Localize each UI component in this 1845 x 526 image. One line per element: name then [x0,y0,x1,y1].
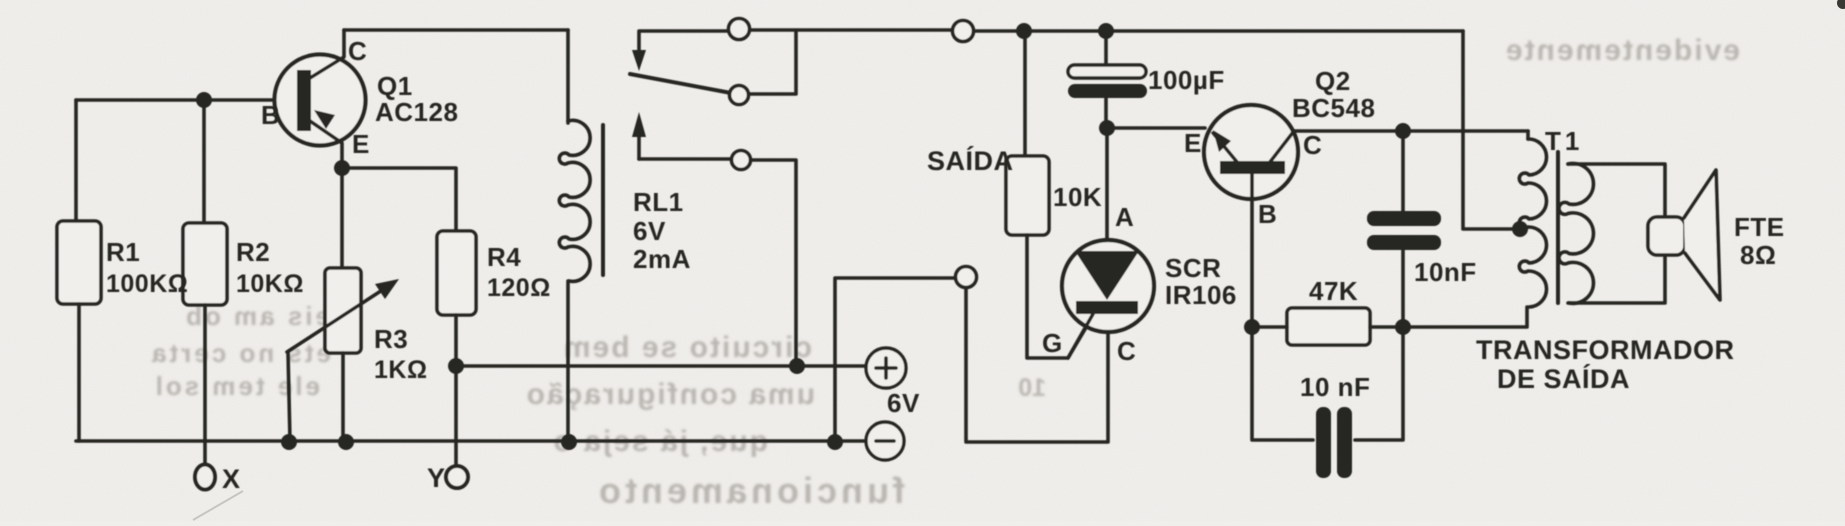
wire R4 bottom to terminal Y [454,315,458,464]
terminal Y [446,466,468,488]
resistor R4 [437,231,476,315]
svg-text:X: X [222,464,241,494]
node SCR anode / Q2 emitter [1099,120,1115,136]
terminal open circle top [953,21,974,42]
svg-text:10KΩ: 10KΩ [236,270,304,298]
wire top contact to rail [750,28,952,32]
resistor R1 [57,221,101,304]
transistor Q2 emitter arrow [1213,130,1231,152]
node Q2 base / 47K [1244,319,1260,335]
svg-text:funcionamento: funcionamento [595,470,905,511]
wire NC contact stub [639,157,731,161]
relay contact top [729,19,750,40]
wire base rail top-left (Q1 base feed) [76,98,276,102]
wire middle contact riser [749,31,796,94]
wire emitter down to R3 [340,168,344,268]
transistor Q1 collector lead [310,30,344,78]
svg-text:R2: R2 [236,237,270,267]
svg-text:SAÍDA: SAÍDA [927,145,1014,176]
battery B1 negative terminal [866,422,904,460]
svg-text:G: G [1042,328,1063,358]
svg-text:Q2: Q2 [1315,66,1351,96]
svg-text:SCR: SCR [1165,253,1221,283]
svg-text:R3: R3 [374,324,408,354]
relay actuation arrow up (from NC contact wire) [637,135,641,159]
svg-text:C: C [1303,130,1322,160]
svg-text:Y: Y [427,463,446,493]
relay actuation arrow down (from NO contact wire) [639,31,729,52]
wire R1 bottom to ground rail [77,304,81,441]
wire battery positive feed [456,364,865,368]
capacitor 100uF plate 1 [1068,65,1146,78]
svg-text:T1: T1 [1545,126,1583,156]
wire 100uF bottom lead [1104,98,1108,128]
node 47K right [1395,319,1411,335]
wire transformer primary bottom [1403,307,1527,327]
resistor 47K [1287,308,1370,345]
svg-text:A: A [1115,202,1134,232]
wire secondary bottom to speaker [1568,255,1665,303]
capacitor 10nF top plate 1 [1367,211,1441,226]
svg-text:E: E [1184,128,1202,158]
svg-text:47K: 47K [1309,276,1358,306]
svg-text:E: E [352,129,370,159]
svg-text:DE SAÍDA: DE SAÍDA [1497,363,1630,394]
wire SCR anode lead [1105,128,1109,240]
wire relay coil bottom to rail [566,281,570,441]
svg-text:ele tem sol: ele tem sol [153,371,320,401]
node R3 bottom [338,434,354,450]
wire 100uF top lead [1104,31,1108,66]
resistor 10K [1006,156,1049,235]
svg-text:10 nF: 10 nF [1300,372,1370,402]
transistor Q1 emitter lead [310,121,342,168]
node transformer tap [1512,221,1528,237]
wire top rail drop to relay coil [566,30,570,123]
svg-text:R4: R4 [487,242,521,272]
svg-text:BC548: BC548 [1292,93,1375,123]
wire R3 bottom to rail [341,353,345,441]
wire R2 bottom to terminal X [203,305,207,464]
node lower terminal rail [827,434,843,450]
svg-text:TRANSFORMADOR: TRANSFORMADOR [1476,335,1734,365]
wire 47K left [1252,325,1287,329]
transistor Q2 base bar [1220,161,1285,174]
scan scratch line [193,491,243,520]
wire 10nF (top) upper lead [1401,131,1405,211]
transistor Q2 base lead [1250,174,1254,326]
svg-text:IR106: IR106 [1165,280,1237,310]
svg-text:evidentemente: evidentemente [1504,34,1740,67]
relay contact middle [730,86,749,105]
transistor Q1 emitter arrow (PNP) [314,110,335,129]
capacitor 10nF bottom plate 1 [1316,407,1331,478]
relay core bar [601,125,605,275]
wire 10nF (top) lower lead [1401,250,1405,327]
svg-text:FTE: FTE [1734,212,1785,242]
wire emitter to R4 [342,168,456,231]
wire left vertical to R1 [74,100,78,221]
svg-text:100µF: 100µF [1148,65,1225,95]
wire primary top entry [1526,131,1530,139]
node collector/10nF [1395,123,1411,139]
svg-text:C: C [1117,336,1136,366]
svg-text:2mA: 2mA [633,244,691,274]
wire R2 top [202,100,206,223]
svg-text:R1: R1 [106,237,140,267]
svg-text:10nF: 10nF [1414,257,1477,287]
svg-text:6V: 6V [633,216,666,246]
svg-text:120Ω: 120Ω [487,274,551,302]
wire R3 wiper to rail [288,352,290,441]
SCR gate lead [1068,314,1093,358]
svg-text:6V: 6V [887,388,920,418]
resistor R2 [183,223,227,305]
svg-text:AC128: AC128 [375,97,458,127]
SCR body [1062,240,1154,332]
node emitter junction [334,160,350,176]
relay RL1 coil [559,120,590,281]
wire top rail right [974,29,1463,33]
transistor Q2 emitter lead [1213,133,1237,162]
node junction base/R2 [196,92,212,108]
wire bottom contact drop [751,160,796,366]
wire secondary top to speaker [1568,164,1665,217]
wire 10K bottom to SCR gate [1027,235,1094,358]
wire Q2 collector to transformer [1294,129,1528,133]
transistor Q1 body [275,55,366,146]
transistor Q2 collector lead [1270,131,1294,162]
relay contact bottom [732,151,751,170]
wire lower terminal to rail [835,278,955,441]
svg-text:8Ω: 8Ω [1740,240,1776,270]
node switch to battery wire [789,358,805,374]
relay switch blade [630,74,731,93]
capacitor 10nF top plate 2 [1367,235,1441,250]
transformer T1 core [1556,152,1560,303]
SCR anode triangle [1075,251,1139,300]
svg-text:1KΩ: 1KΩ [374,356,428,384]
wire 10nF bottom to 47K right [1355,327,1403,440]
transformer T1 primary coil [1519,139,1546,307]
svg-text:circuito se bem: circuito se bem [562,331,812,364]
battery B1 positive terminal [866,348,906,388]
node coil bottom [561,434,577,450]
speaker FTE horn [1684,170,1720,300]
wire Q2 base loop down [1252,327,1313,440]
transistor Q2 body [1204,105,1298,199]
capacitor 100uF plate 2 [1068,84,1147,98]
scan corner mark [1837,0,1845,9]
SCR cathode bar [1076,301,1138,314]
wire SCR cathode down [966,287,1108,442]
terminal open circle lower [956,267,977,288]
node wiper bottom [281,434,297,450]
capacitor 10nF bottom plate 2 [1337,407,1352,478]
wire top rail left [344,28,568,32]
wire 10K feed [1023,31,1027,156]
node 100uF top [1098,23,1114,39]
svg-text:10K: 10K [1053,182,1102,212]
svg-text:B: B [261,100,280,130]
node R4/battery wire [448,358,464,374]
svg-text:C: C [348,36,367,66]
svg-text:10: 10 [1018,374,1046,402]
wire top rail drop to transformer tap [1463,31,1512,229]
speaker FTE box [1648,217,1685,255]
transistor Q1 base bar [297,70,311,131]
resistor R3 (variable) [325,268,361,353]
terminal X [195,465,215,490]
wire node to Q2 emitter [1107,126,1205,130]
node 10K top [1016,23,1032,39]
svg-text:B: B [1258,199,1277,229]
transformer T1 secondary coil [1559,163,1594,303]
svg-text:100KΩ: 100KΩ [106,270,188,298]
wire 47K right [1370,325,1403,329]
wire bottom rail [76,439,866,443]
svg-text:RL1: RL1 [633,187,684,217]
resistor R3 wiper arrow [287,285,390,352]
